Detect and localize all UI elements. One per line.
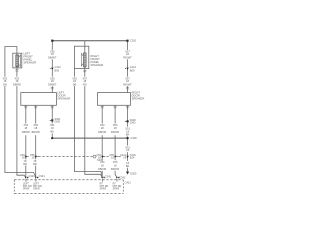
- wire left speaker bottom lead to corridor entry 1: [17, 66, 26, 177]
- svg-text:C341: C341: [29, 174, 36, 178]
- connector arrow left pair 2: [35, 156, 37, 158]
- wire left box output 1 to entry 1: [25, 105, 27, 177]
- svg-text:GND: GND: [54, 120, 60, 124]
- svg-text:SPKR: SPKR: [113, 188, 120, 191]
- svg-text:BK: BK: [126, 164, 130, 168]
- dashed body corridor: [14, 179, 123, 181]
- svg-text:DB/WT: DB/WT: [48, 82, 57, 86]
- svg-text:SPEAKER: SPEAKER: [91, 63, 104, 67]
- svg-text:SPEAKER: SPEAKER: [24, 60, 37, 64]
- speaker coil left: [16, 55, 19, 67]
- node splice right end of bus: [126, 40, 128, 42]
- dashed inline connector boundary: [14, 157, 126, 194]
- text labels: [24, 51, 145, 100]
- svg-text:DB/RD: DB/RD: [22, 130, 30, 134]
- speaker cone left: [19, 55, 21, 67]
- wire right speaker top stub: [84, 41, 86, 53]
- svg-text:SPEAKER: SPEAKER: [132, 97, 145, 101]
- wire radio to left door speaker box: [51, 41, 53, 93]
- wire left box ground: [51, 105, 53, 138]
- wire left speaker loop to corridor entry 2: [5, 47, 36, 178]
- svg-text:18: 18: [22, 155, 25, 159]
- svg-text:BR: BR: [33, 162, 37, 166]
- svg-text:RD/WT: RD/WT: [123, 82, 132, 86]
- node splice on left ground wire: [51, 119, 53, 121]
- svg-text:DB: DB: [23, 162, 27, 166]
- svg-text:BK: BK: [126, 133, 130, 137]
- node splice on right ground wire: [127, 120, 129, 122]
- wire right speaker bottom lead to corridor entry 3: [85, 67, 102, 177]
- svg-text:BR/OR: BR/OR: [111, 130, 119, 134]
- svg-text:B09: B09: [55, 68, 60, 72]
- svg-text:BR/OR: BR/OR: [111, 167, 119, 171]
- node splice left end of bus: [51, 40, 53, 42]
- speaker coil terminals left: [16, 55, 19, 66]
- svg-text:DB: DB: [3, 82, 7, 86]
- wire right box ground to G300: [127, 105, 129, 171]
- connector arrow right ground: [126, 156, 128, 158]
- svg-text:G300: G300: [130, 136, 137, 140]
- speaker coil right: [83, 53, 86, 67]
- svg-text:C342: C342: [119, 176, 126, 180]
- speaker coil terminals right: [84, 53, 87, 67]
- speaker box left front panel: [13, 53, 22, 68]
- connector arrow left pair 1: [25, 156, 27, 158]
- connector arrow on left radio wire: [51, 68, 54, 70]
- wire right speaker left lead down box edge to corridor entry 3: [74, 69, 102, 177]
- wire radio to right door speaker box: [127, 41, 129, 93]
- connector sym tails: [27, 156, 118, 158]
- wire ground bus: [52, 137, 127, 139]
- svg-text:RD/WT: RD/WT: [123, 56, 132, 60]
- node left end ground bus: [51, 137, 53, 139]
- svg-text:C200: C200: [130, 39, 137, 43]
- connector arrow on right radio wire: [126, 68, 129, 70]
- svg-text:SPKR: SPKR: [23, 188, 30, 191]
- svg-text:X55: X55: [113, 160, 118, 164]
- amplified door speaker box right: [98, 93, 131, 106]
- svg-text:BK: BK: [51, 130, 55, 134]
- corridor entry marks: [25, 177, 29, 179]
- wire right box output 2 to entry 4: [115, 105, 117, 177]
- svg-text:GND: GND: [130, 121, 136, 125]
- node G300 junction right: [127, 137, 129, 139]
- svg-text:B09: B09: [130, 68, 135, 72]
- svg-text:DB/OR: DB/OR: [98, 167, 106, 171]
- svg-text:SPEAKER: SPEAKER: [58, 97, 71, 101]
- amplified door speaker box left: [21, 93, 57, 106]
- svg-text:C342: C342: [105, 175, 112, 179]
- wire right box output 1 to entry 3: [101, 105, 103, 177]
- wire label whiteouts: [1, 50, 134, 171]
- ground G300 triangle: [126, 172, 129, 175]
- svg-text:B14: B14: [130, 155, 135, 159]
- connector arrow right pair 2: [114, 156, 116, 158]
- svg-text:18: 18: [32, 155, 35, 159]
- svg-text:RD: RD: [83, 82, 87, 86]
- connector arrow right pair 1: [101, 156, 103, 158]
- svg-text:SPKR: SPKR: [33, 188, 40, 191]
- wire left box output 2 to entry 2: [35, 105, 37, 177]
- svg-text:BR/RD: BR/RD: [32, 130, 40, 134]
- svg-text:C412: C412: [125, 181, 132, 185]
- svg-text:DB/OR: DB/OR: [98, 130, 106, 134]
- corridor cell texts: [23, 183, 122, 191]
- speaker box right front panel: [74, 46, 88, 68]
- speaker cone right: [81, 54, 83, 66]
- svg-text:S341: S341: [97, 158, 104, 162]
- splice ring on boundary: [93, 155, 96, 158]
- junction dots and connector arrows: [25, 40, 130, 179]
- svg-text:DB: DB: [73, 82, 77, 86]
- svg-text:DB/RD: DB/RD: [13, 82, 21, 86]
- corridor entry stubs: [26, 179, 117, 182]
- svg-text:C341: C341: [39, 174, 46, 178]
- svg-text:G300: G300: [130, 172, 137, 176]
- svg-text:SPKR: SPKR: [100, 188, 107, 191]
- svg-text:DB/WT: DB/WT: [48, 56, 57, 60]
- wire radio output bus: [52, 40, 127, 42]
